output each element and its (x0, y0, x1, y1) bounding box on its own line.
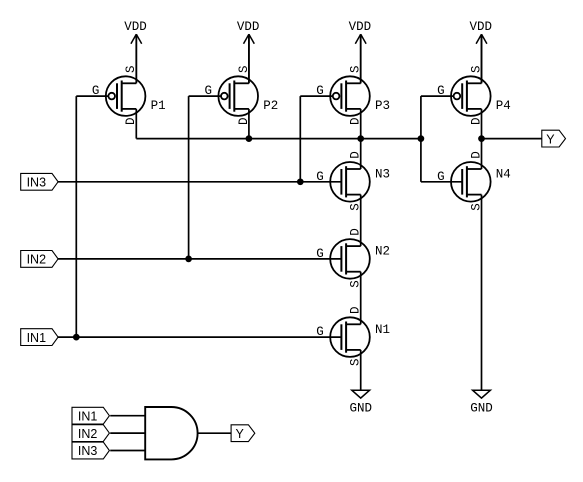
svg-text:P4: P4 (496, 99, 511, 113)
svg-text:IN2: IN2 (27, 253, 47, 267)
svg-text:P2: P2 (263, 99, 278, 113)
svg-text:G: G (316, 170, 324, 184)
svg-text:VDD: VDD (469, 20, 492, 34)
svg-text:S: S (349, 280, 363, 288)
svg-text:IN1: IN1 (78, 409, 98, 423)
svg-text:IN1: IN1 (27, 331, 47, 345)
svg-text:G: G (92, 84, 100, 98)
svg-text:Y: Y (546, 132, 555, 146)
svg-text:S: S (349, 203, 363, 211)
svg-text:D: D (349, 306, 363, 314)
svg-text:Y: Y (236, 427, 245, 441)
svg-text:N2: N2 (375, 245, 390, 259)
svg-text:S: S (469, 65, 483, 73)
svg-text:G: G (316, 247, 324, 261)
svg-text:P3: P3 (375, 99, 390, 113)
svg-text:IN3: IN3 (78, 444, 98, 458)
svg-text:S: S (124, 65, 138, 73)
svg-text:D: D (349, 151, 363, 159)
svg-text:D: D (469, 117, 483, 125)
svg-text:G: G (316, 325, 324, 339)
svg-text:IN3: IN3 (27, 176, 47, 190)
svg-text:VDD: VDD (237, 20, 260, 34)
svg-text:GND: GND (349, 402, 372, 416)
svg-text:S: S (349, 65, 363, 73)
svg-text:D: D (124, 117, 138, 125)
svg-text:D: D (469, 151, 483, 159)
svg-text:D: D (237, 117, 251, 125)
svg-text:VDD: VDD (124, 20, 147, 34)
svg-text:N1: N1 (375, 323, 390, 337)
svg-text:GND: GND (470, 402, 493, 416)
svg-text:N4: N4 (496, 168, 511, 182)
svg-text:D: D (349, 228, 363, 236)
svg-text:P1: P1 (151, 99, 166, 113)
svg-text:G: G (437, 84, 445, 98)
svg-text:G: G (316, 84, 324, 98)
svg-text:S: S (469, 203, 483, 211)
svg-text:IN2: IN2 (78, 427, 98, 441)
svg-text:S: S (349, 358, 363, 366)
svg-text:VDD: VDD (349, 20, 372, 34)
svg-text:D: D (349, 117, 363, 125)
svg-text:G: G (437, 170, 445, 184)
svg-text:G: G (204, 84, 212, 98)
svg-text:N3: N3 (375, 168, 390, 182)
svg-text:S: S (237, 65, 251, 73)
